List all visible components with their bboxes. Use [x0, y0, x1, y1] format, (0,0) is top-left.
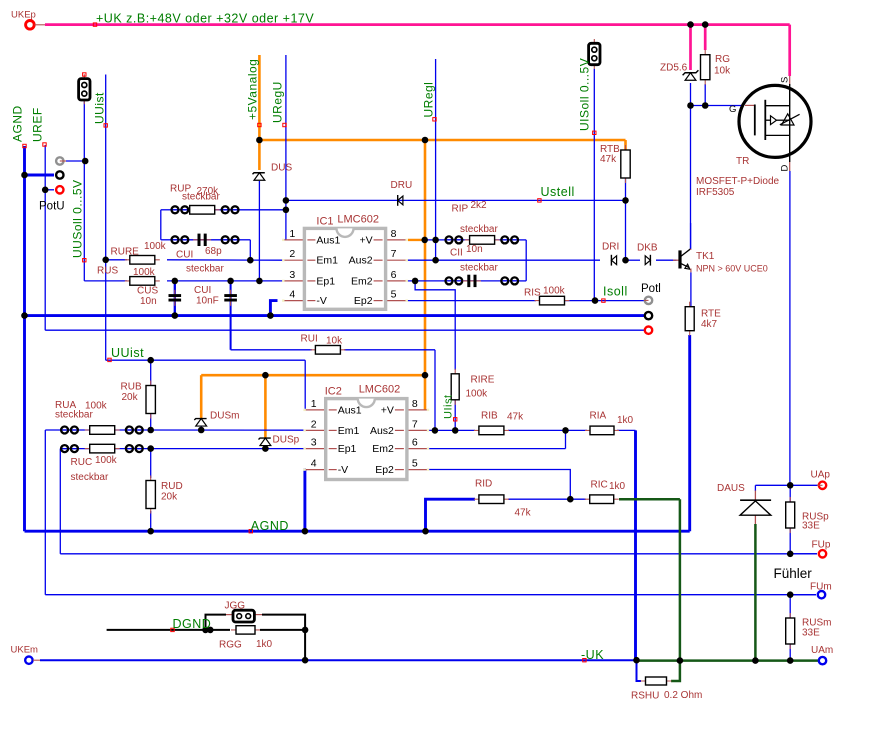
- svg-text:DUSp: DUSp: [273, 435, 300, 446]
- svg-text:D: D: [779, 165, 790, 172]
- svg-text:RIS: RIS: [524, 288, 541, 299]
- svg-text:Ep1: Ep1: [316, 275, 335, 287]
- svg-text:RURE: RURE: [111, 247, 140, 258]
- svg-text:RGG: RGG: [219, 640, 242, 651]
- svg-text:4: 4: [311, 458, 317, 470]
- svg-text:10k: 10k: [326, 336, 343, 347]
- svg-text:Fühler: Fühler: [774, 566, 813, 581]
- svg-text:Ustell: Ustell: [541, 185, 575, 199]
- svg-text:AGND: AGND: [251, 519, 289, 533]
- svg-text:10k: 10k: [714, 66, 731, 77]
- svg-text:+V: +V: [381, 404, 394, 416]
- svg-text:UUist: UUist: [93, 92, 107, 124]
- svg-text:100k: 100k: [133, 267, 156, 278]
- svg-text:RSHU: RSHU: [631, 691, 659, 702]
- svg-text:47k: 47k: [515, 508, 532, 519]
- svg-text:2: 2: [311, 418, 317, 430]
- svg-text:URegU: URegU: [271, 81, 285, 123]
- svg-text:+UK z.B:+48V oder +32V oder +1: +UK z.B:+48V oder +32V oder +17V: [96, 12, 314, 26]
- svg-text:UUSoll 0...5V: UUSoll 0...5V: [71, 179, 85, 258]
- svg-text:NPN > 60V UCE0: NPN > 60V UCE0: [696, 264, 768, 274]
- svg-text:steckbar: steckbar: [71, 472, 109, 483]
- svg-text:steckbar: steckbar: [182, 192, 220, 203]
- svg-text:6: 6: [391, 269, 397, 281]
- svg-text:IRF5305: IRF5305: [696, 187, 735, 198]
- svg-text:DRU: DRU: [391, 180, 413, 191]
- svg-text:68p: 68p: [205, 246, 222, 257]
- svg-text:CII: CII: [450, 248, 463, 259]
- svg-text:20k: 20k: [161, 492, 178, 503]
- svg-text:100k: 100k: [95, 455, 118, 466]
- svg-text:RIP: RIP: [452, 204, 469, 215]
- svg-text:DAUS: DAUS: [717, 483, 745, 494]
- svg-text:DUSm: DUSm: [210, 411, 239, 422]
- svg-text:3: 3: [289, 269, 295, 281]
- svg-text:MOSFET-P+Diode: MOSFET-P+Diode: [696, 176, 780, 187]
- svg-text:4: 4: [289, 289, 295, 301]
- svg-text:UAp: UAp: [811, 470, 831, 481]
- svg-text:RUC: RUC: [71, 457, 93, 468]
- svg-text:URegl: URegl: [422, 82, 436, 118]
- svg-text:RUD: RUD: [161, 481, 183, 492]
- svg-text:RG: RG: [715, 54, 730, 65]
- svg-text:CUS: CUS: [137, 286, 158, 297]
- svg-text:RUS: RUS: [97, 266, 118, 277]
- svg-text:UKEp: UKEp: [11, 10, 36, 21]
- svg-text:AGND: AGND: [11, 105, 25, 142]
- svg-text:RIA: RIA: [590, 411, 607, 422]
- svg-text:0.2 Ohm: 0.2 Ohm: [664, 690, 702, 701]
- svg-text:UISoll 0...5V: UISoll 0...5V: [578, 58, 592, 131]
- svg-text:ZD5.6: ZD5.6: [660, 63, 688, 74]
- svg-text:TR: TR: [736, 156, 749, 167]
- svg-text:FUm: FUm: [810, 582, 832, 593]
- svg-text:47k: 47k: [600, 154, 617, 165]
- svg-text:+V: +V: [359, 234, 372, 246]
- svg-text:47k: 47k: [507, 412, 524, 423]
- svg-text:DKB: DKB: [637, 243, 658, 254]
- svg-text:steckbar: steckbar: [55, 410, 93, 421]
- svg-text:-V: -V: [338, 464, 349, 476]
- svg-text:+5Vanalog: +5Vanalog: [246, 59, 260, 120]
- svg-text:1k0: 1k0: [609, 481, 626, 492]
- svg-text:UUist: UUist: [111, 346, 144, 360]
- svg-text:TK1: TK1: [696, 251, 715, 262]
- svg-text:FUp: FUp: [812, 540, 831, 551]
- svg-text:RID: RID: [475, 479, 492, 490]
- svg-text:IC2: IC2: [325, 386, 342, 398]
- svg-text:4k7: 4k7: [701, 319, 718, 330]
- svg-text:Ep2: Ep2: [375, 464, 394, 476]
- svg-text:Aus1: Aus1: [338, 404, 362, 416]
- svg-text:RIC: RIC: [591, 480, 608, 491]
- svg-text:Ep1: Ep1: [338, 443, 357, 455]
- svg-text:Aus2: Aus2: [370, 425, 394, 437]
- svg-text:100k: 100k: [144, 241, 167, 252]
- svg-text:UAm: UAm: [811, 645, 833, 656]
- svg-text:1: 1: [311, 398, 317, 410]
- svg-text:RUB: RUB: [121, 382, 142, 393]
- svg-text:8: 8: [412, 398, 418, 410]
- svg-text:JGG: JGG: [225, 601, 246, 612]
- svg-text:steckbar: steckbar: [460, 263, 498, 274]
- svg-text:100k: 100k: [543, 286, 566, 297]
- svg-text:100k: 100k: [466, 389, 489, 400]
- svg-text:Em2: Em2: [351, 275, 373, 287]
- svg-text:S: S: [779, 77, 790, 83]
- svg-text:6: 6: [412, 437, 418, 449]
- svg-text:Aus1: Aus1: [316, 234, 340, 246]
- svg-text:DRI: DRI: [602, 242, 619, 253]
- svg-text:RIRE: RIRE: [471, 375, 495, 386]
- svg-text:DUS: DUS: [271, 163, 292, 174]
- svg-text:Ep2: Ep2: [354, 295, 373, 307]
- svg-text:10n: 10n: [466, 244, 483, 255]
- svg-text:10nF: 10nF: [196, 296, 219, 307]
- svg-text:10n: 10n: [140, 296, 157, 307]
- svg-text:UREF: UREF: [31, 107, 45, 142]
- svg-text:CUI: CUI: [176, 250, 193, 261]
- svg-text:-UK: -UK: [581, 648, 604, 662]
- svg-text:Em2: Em2: [372, 443, 394, 455]
- svg-text:Aus2: Aus2: [349, 255, 373, 267]
- svg-text:G: G: [729, 104, 736, 115]
- svg-text:DGND: DGND: [173, 617, 212, 631]
- svg-text:20k: 20k: [122, 392, 139, 403]
- svg-text:2k2: 2k2: [471, 200, 488, 211]
- svg-text:CUI: CUI: [194, 285, 211, 296]
- svg-text:33E: 33E: [802, 521, 820, 532]
- svg-text:3: 3: [311, 437, 317, 449]
- svg-text:5: 5: [391, 289, 397, 301]
- svg-text:IC1: IC1: [316, 215, 333, 227]
- svg-text:1k0: 1k0: [256, 639, 273, 650]
- svg-text:1k0: 1k0: [617, 415, 634, 426]
- svg-text:RTE: RTE: [701, 309, 721, 320]
- svg-text:PotU: PotU: [39, 201, 65, 213]
- svg-text:2: 2: [289, 248, 295, 260]
- svg-text:steckbar: steckbar: [186, 264, 224, 275]
- svg-text:7: 7: [391, 248, 397, 260]
- svg-text:Em1: Em1: [338, 425, 360, 437]
- svg-text:Potl: Potl: [641, 283, 661, 295]
- svg-text:-V: -V: [316, 295, 327, 307]
- svg-text:RUI: RUI: [301, 334, 318, 345]
- svg-text:33E: 33E: [802, 628, 820, 639]
- svg-text:UKEm: UKEm: [11, 645, 39, 656]
- svg-text:8: 8: [391, 228, 397, 240]
- svg-text:LMC602: LMC602: [359, 384, 401, 396]
- svg-text:Isoll: Isoll: [603, 285, 628, 299]
- svg-text:Em1: Em1: [316, 255, 338, 267]
- svg-text:7: 7: [412, 418, 418, 430]
- svg-text:steckbar: steckbar: [460, 224, 498, 235]
- svg-text:RIB: RIB: [481, 411, 498, 422]
- svg-text:1: 1: [289, 228, 295, 240]
- svg-text:UIist: UIist: [443, 395, 455, 420]
- svg-text:LMC602: LMC602: [337, 213, 379, 225]
- svg-text:5: 5: [412, 458, 418, 470]
